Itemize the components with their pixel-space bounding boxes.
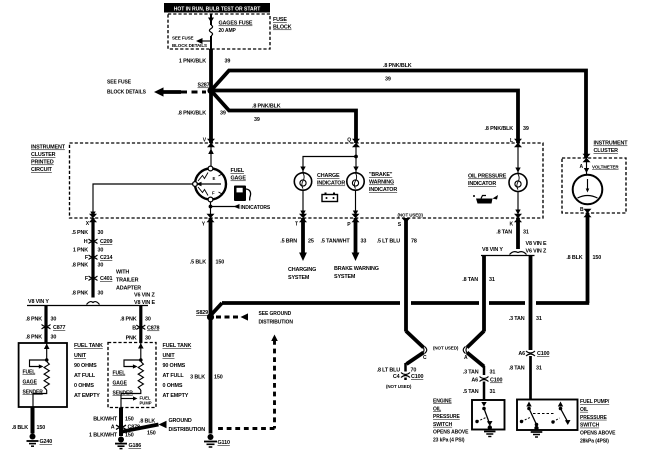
svg-text:SWITCH: SWITCH	[580, 423, 600, 429]
svg-text:C100: C100	[537, 351, 549, 357]
svg-text:.3 TAN: .3 TAN	[509, 316, 525, 322]
svg-text:"BRAKE": "BRAKE"	[369, 172, 393, 178]
svg-text:S287: S287	[198, 83, 210, 89]
svg-text:HOT IN RUN, BULB TEST OR START: HOT IN RUN, BULB TEST OR START	[174, 6, 261, 12]
svg-text:FUEL: FUEL	[23, 370, 36, 376]
svg-text:PRINTED: PRINTED	[31, 160, 54, 166]
svg-text:25: 25	[308, 239, 314, 245]
svg-text:(NOT USED): (NOT USED)	[398, 213, 424, 218]
svg-text:C209: C209	[100, 239, 112, 245]
svg-text:150: 150	[125, 417, 134, 423]
svg-text:OIL PRESSURE: OIL PRESSURE	[468, 174, 507, 180]
svg-text:SYSTEM: SYSTEM	[334, 274, 356, 280]
svg-text:T: T	[295, 222, 298, 228]
svg-text:.8 PNK/BLK: .8 PNK/BLK	[383, 63, 412, 69]
svg-text:C878: C878	[147, 326, 159, 332]
svg-text:PNK: PNK	[126, 336, 137, 342]
svg-text:INSTRUMENT: INSTRUMENT	[594, 141, 629, 147]
svg-text:.8 BLK: .8 BLK	[566, 255, 582, 261]
svg-text:BLOCK DETAILS: BLOCK DETAILS	[107, 90, 147, 96]
svg-text:.3 TAN: .3 TAN	[463, 370, 479, 376]
svg-text:150: 150	[214, 375, 223, 381]
svg-text:CHARGE: CHARGE	[317, 173, 340, 179]
svg-text:FUEL: FUEL	[113, 371, 126, 377]
svg-text:BLOCK DETAILS: BLOCK DETAILS	[172, 43, 207, 48]
svg-text:70: 70	[411, 368, 417, 374]
svg-text:39: 39	[385, 77, 391, 83]
svg-text:DISTRIBUTION: DISTRIBUTION	[259, 320, 294, 326]
svg-text:78: 78	[411, 239, 417, 245]
svg-text:33: 33	[361, 239, 367, 245]
svg-text:150: 150	[147, 431, 156, 437]
svg-text:V6 VIN Z: V6 VIN Z	[134, 293, 156, 299]
svg-text:FUEL: FUEL	[231, 168, 245, 174]
svg-text:.8 TAN: .8 TAN	[462, 277, 478, 283]
svg-text:SENDER: SENDER	[23, 390, 44, 396]
svg-text:WARNING: WARNING	[369, 180, 394, 186]
svg-text:.8 PNK: .8 PNK	[72, 291, 89, 297]
svg-text:30: 30	[98, 263, 104, 269]
svg-text:31: 31	[536, 366, 542, 372]
svg-text:AT FULL: AT FULL	[163, 373, 185, 379]
svg-text:E: E	[213, 176, 216, 181]
svg-text:31: 31	[536, 316, 542, 322]
svg-text:30: 30	[145, 317, 151, 323]
svg-text:INSTRUMENT: INSTRUMENT	[31, 145, 66, 151]
svg-text:SYSTEM: SYSTEM	[288, 275, 310, 281]
svg-text:A: A	[464, 355, 468, 361]
svg-text:A: A	[111, 425, 115, 431]
svg-text:INDICATOR: INDICATOR	[317, 181, 345, 187]
svg-text:90 OHMS: 90 OHMS	[74, 363, 97, 369]
svg-text:39: 39	[523, 126, 529, 132]
svg-text:CHARGING: CHARGING	[288, 267, 316, 273]
svg-text:CIRCUIT: CIRCUIT	[31, 167, 53, 173]
svg-text:31: 31	[490, 370, 496, 376]
svg-text:ENGINE: ENGINE	[433, 399, 452, 405]
svg-text:V8 VIN Y: V8 VIN Y	[28, 299, 49, 305]
svg-text:PUMP: PUMP	[140, 401, 152, 406]
svg-text:F: F	[212, 191, 215, 196]
svg-text:PRESSURE: PRESSURE	[580, 415, 607, 421]
svg-text:.8 PNK/BLK: .8 PNK/BLK	[178, 111, 207, 117]
svg-text:H: H	[84, 239, 88, 245]
svg-text:150: 150	[216, 260, 225, 266]
svg-text:.8 BLK: .8 BLK	[12, 425, 28, 431]
svg-text:BRAKE WARNING: BRAKE WARNING	[334, 266, 379, 272]
svg-text:3 BLK: 3 BLK	[190, 375, 205, 381]
svg-text:150: 150	[37, 425, 46, 431]
svg-text:.5 LT BLU: .5 LT BLU	[377, 239, 401, 245]
svg-text:C214: C214	[100, 255, 112, 261]
svg-text:.5 BRN: .5 BRN	[280, 239, 297, 245]
svg-text:G186: G186	[129, 443, 142, 449]
svg-text:A6: A6	[518, 351, 525, 357]
svg-text:G110: G110	[218, 440, 230, 446]
svg-text:150: 150	[125, 433, 134, 439]
svg-text:1 PNK: 1 PNK	[73, 248, 88, 254]
svg-text:.5 BLK: .5 BLK	[190, 260, 206, 266]
svg-text:150: 150	[593, 255, 602, 261]
svg-text:.8 BLK: .8 BLK	[139, 419, 155, 425]
svg-text:C401: C401	[100, 276, 112, 282]
svg-text:.8 PNK: .8 PNK	[26, 317, 43, 323]
svg-text:FUEL TANK: FUEL TANK	[163, 343, 192, 349]
svg-text:C4: C4	[393, 374, 400, 380]
svg-text:SEE FUSE: SEE FUSE	[107, 80, 132, 86]
svg-text:.8 PNK/BLK: .8 PNK/BLK	[485, 126, 514, 132]
svg-text:CLUSTER: CLUSTER	[31, 152, 56, 158]
svg-text:30: 30	[98, 230, 104, 236]
svg-text:GAGE: GAGE	[23, 380, 38, 386]
svg-text:INDICATOR: INDICATOR	[468, 181, 496, 187]
svg-text:G240: G240	[40, 439, 53, 445]
svg-text:C100: C100	[490, 378, 502, 384]
svg-text:V8 VIN E: V8 VIN E	[134, 300, 156, 306]
svg-text:S829: S829	[196, 310, 208, 316]
svg-text:.8 LT BLU: .8 LT BLU	[377, 368, 401, 374]
svg-text:30: 30	[145, 336, 151, 342]
svg-text:.8 PNK/BLK: .8 PNK/BLK	[252, 104, 281, 110]
svg-text:C: C	[423, 355, 427, 361]
svg-text:VOLTMETER: VOLTMETER	[592, 165, 619, 170]
svg-text:A6: A6	[471, 378, 478, 384]
svg-text:OPENS ABOVE: OPENS ABOVE	[580, 431, 616, 437]
svg-text:1 PNK/BLK: 1 PNK/BLK	[179, 59, 206, 65]
svg-text:INDICATOR: INDICATOR	[369, 187, 397, 193]
svg-text:SEE FUSE: SEE FUSE	[172, 36, 194, 41]
svg-text:OIL: OIL	[433, 406, 441, 412]
svg-text:.8 PNK: .8 PNK	[120, 317, 137, 323]
svg-text:28kPa (4PSI): 28kPa (4PSI)	[580, 439, 609, 445]
svg-text:1 BLK/WHT: 1 BLK/WHT	[89, 433, 118, 439]
svg-text:C877: C877	[53, 325, 65, 331]
svg-text:FUSE: FUSE	[273, 17, 287, 23]
svg-text:B: B	[580, 207, 584, 213]
svg-text:OIL: OIL	[580, 407, 588, 413]
svg-text:23 kPa (4 PSI): 23 kPa (4 PSI)	[433, 438, 465, 444]
svg-text:V8 VIN Y: V8 VIN Y	[482, 247, 503, 253]
svg-text:.8 PNK: .8 PNK	[72, 263, 89, 269]
svg-text:.8 TAN: .8 TAN	[496, 230, 512, 236]
svg-text:20 AMP: 20 AMP	[219, 28, 237, 34]
svg-text:30: 30	[98, 291, 104, 297]
svg-text:PRESSURE: PRESSURE	[433, 414, 460, 420]
svg-text:GAGES FUSE: GAGES FUSE	[219, 21, 253, 27]
svg-text:39: 39	[225, 59, 231, 65]
svg-text:V6 VIN Z: V6 VIN Z	[526, 249, 548, 255]
svg-text:31: 31	[489, 277, 495, 283]
svg-text:(NOT USED): (NOT USED)	[386, 384, 412, 389]
svg-text:0 OHMS: 0 OHMS	[163, 383, 183, 389]
svg-text:.8 PNK: .8 PNK	[26, 335, 43, 341]
svg-text:FUEL TANK: FUEL TANK	[74, 343, 103, 349]
svg-text:.5 TAN: .5 TAN	[463, 389, 479, 395]
svg-text:UNIT: UNIT	[163, 353, 176, 359]
svg-text:GAGE: GAGE	[113, 381, 128, 387]
svg-text:90 OHMS: 90 OHMS	[163, 363, 186, 369]
svg-text:(NOT USED): (NOT USED)	[433, 346, 459, 351]
svg-text:GROUND: GROUND	[169, 418, 192, 424]
svg-text:AT EMPTY: AT EMPTY	[74, 393, 100, 399]
svg-text:L: L	[510, 138, 513, 144]
svg-text:INDICATORS: INDICATORS	[241, 205, 271, 211]
svg-text:0 OHMS: 0 OHMS	[74, 383, 94, 389]
svg-text:BLOCK: BLOCK	[273, 25, 292, 31]
svg-text:B: B	[132, 326, 136, 332]
svg-text:39: 39	[254, 117, 260, 123]
svg-text:.5 PNK: .5 PNK	[72, 230, 89, 236]
svg-text:.5 TAN/WHT: .5 TAN/WHT	[321, 239, 351, 245]
svg-text:V8 VIN E: V8 VIN E	[526, 241, 548, 247]
svg-text:A: A	[579, 164, 583, 170]
svg-text:DISTRIBUTION: DISTRIBUTION	[169, 427, 206, 433]
svg-text:SENDER: SENDER	[113, 391, 134, 397]
svg-text:CLUSTER: CLUSTER	[594, 148, 619, 154]
svg-text:39: 39	[220, 111, 226, 117]
svg-text:K: K	[509, 222, 513, 228]
svg-text:Q: Q	[347, 138, 351, 144]
svg-text:AT FULL: AT FULL	[74, 373, 96, 379]
svg-text:FUEL PUMP/: FUEL PUMP/	[580, 399, 610, 405]
svg-text:AT EMPTY: AT EMPTY	[163, 393, 189, 399]
svg-text:WITH: WITH	[116, 270, 129, 276]
svg-text:SWITCH: SWITCH	[433, 422, 453, 428]
svg-text:31: 31	[490, 389, 496, 395]
svg-text:ADAPTER: ADAPTER	[116, 286, 141, 292]
svg-text:BLK/WHT: BLK/WHT	[93, 417, 118, 423]
svg-text:OPENS ABOVE: OPENS ABOVE	[433, 430, 469, 436]
svg-text:GAGE: GAGE	[231, 176, 247, 182]
svg-text:31: 31	[523, 230, 529, 236]
svg-text:TRAILER: TRAILER	[116, 278, 139, 284]
svg-text:.8 TAN: .8 TAN	[509, 366, 525, 372]
svg-text:C100: C100	[411, 374, 423, 380]
svg-text:30: 30	[98, 248, 104, 254]
svg-text:30: 30	[51, 317, 57, 323]
svg-text:UNIT: UNIT	[74, 353, 87, 359]
svg-text:30: 30	[51, 335, 57, 341]
svg-text:SEE GROUND: SEE GROUND	[259, 311, 292, 317]
